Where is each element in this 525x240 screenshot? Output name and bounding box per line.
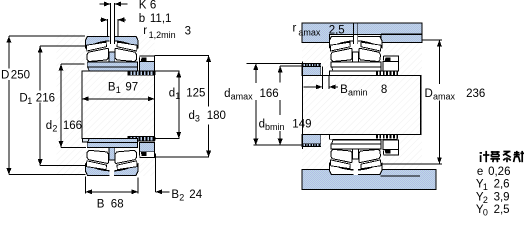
- locking clip top (right view): [385, 57, 391, 61]
- lube hole gap top (right view): [353, 36, 358, 45]
- locking clip top: [141, 57, 147, 61]
- guide ring bottom: [109, 148, 115, 160]
- svg-text:149: 149: [292, 118, 311, 130]
- svg-text:d: d: [224, 88, 230, 100]
- lock washer bottom (right view): [383, 140, 398, 149]
- svg-text:r: r: [293, 23, 297, 35]
- adapter sleeve top (right view): [332, 67, 382, 71]
- bore box: [82, 71, 155, 139]
- svg-text:0: 0: [483, 208, 488, 218]
- roller left row bottom: [87, 150, 108, 163]
- svg-text:2,5: 2,5: [494, 204, 510, 216]
- svg-text:1,2min: 1,2min: [149, 30, 176, 40]
- guide ring bottom (right view): [353, 149, 359, 159]
- lube hole lines: [109, 3, 111, 44]
- roller right row top: [115, 48, 136, 61]
- svg-text:B: B: [340, 84, 348, 96]
- inner ring top (right view): [331, 62, 381, 67]
- dimension d3 180: [155, 54, 210, 56]
- cage strip left bottom: [86, 161, 106, 170]
- svg-text:2: 2: [179, 193, 184, 203]
- dimension dbmin 149: [280, 65, 302, 67]
- svg-text:8: 8: [381, 84, 387, 96]
- svg-text:B: B: [108, 82, 116, 94]
- housing bottom recess shoulder line: [381, 175, 420, 177]
- svg-text:11,1: 11,1: [150, 13, 172, 25]
- svg-text:2,5: 2,5: [329, 25, 345, 37]
- housing top bore line right of bearing: [381, 33, 422, 35]
- svg-text:e: e: [477, 166, 483, 178]
- dimension d2 166: [61, 63, 84, 65]
- guide ring top: [109, 52, 115, 62]
- dimension Bamin 8: [321, 66, 323, 89]
- dimension b 11,1: [100, 19, 107, 21]
- sleeve thread top (right view): [376, 71, 399, 75]
- outer ring top (right view): [329, 36, 382, 48]
- lock nut bottom (right view): [383, 149, 398, 155]
- lube hole gap bottom (right view): [353, 166, 358, 175]
- roller right row bottom: [115, 150, 136, 163]
- dimension D1 216: [40, 45, 86, 47]
- sleeve thread bottom (right view): [376, 135, 399, 139]
- dimension B 68: [85, 177, 87, 194]
- svg-text:amax: amax: [231, 91, 254, 101]
- svg-text:250: 250: [11, 69, 30, 81]
- svg-text:2,6: 2,6: [494, 179, 510, 191]
- lock nut top (right view): [383, 56, 398, 62]
- roller right row bottom (right view): [359, 149, 380, 162]
- sleeve thread top: [128, 71, 155, 75]
- cage strip right bottom (right view): [361, 160, 381, 169]
- svg-text:68: 68: [111, 199, 124, 211]
- svg-text:3: 3: [195, 113, 200, 123]
- svg-text:125: 125: [186, 87, 205, 99]
- adapter sleeve bottom: [88, 139, 138, 143]
- cage strip right top: [117, 42, 137, 51]
- abutment collar bottom: [302, 135, 321, 144]
- lock washer top (right view): [383, 62, 398, 71]
- guide ring top (right view): [353, 52, 359, 62]
- inner ring bottom: [87, 142, 137, 147]
- adapter sleeve bottom (right view): [332, 140, 382, 144]
- svg-text:0,26: 0,26: [488, 166, 510, 178]
- abutment collar top: [302, 66, 321, 75]
- dimension K 6: [100, 3, 110, 5]
- inner ring top: [87, 62, 137, 67]
- cage strip left top (right view): [330, 42, 350, 51]
- lock washer top: [139, 62, 154, 71]
- svg-text:2: 2: [52, 124, 57, 134]
- adapter sleeve top: [88, 67, 138, 71]
- dimension damax 166: [246, 62, 302, 64]
- sleeve flange strip bottom: [82, 138, 137, 142]
- sleeve thread bottom: [128, 137, 155, 141]
- table header 计算系数 (drawn strokes): [480, 151, 524, 162]
- outer ring bottom: [86, 164, 139, 176]
- dimension B2 24: [155, 153, 157, 192]
- svg-text:1: 1: [27, 96, 32, 106]
- svg-text:3: 3: [185, 26, 191, 38]
- cage strip left top: [86, 42, 106, 51]
- outer ring top: [86, 36, 139, 48]
- svg-text:r: r: [143, 25, 147, 37]
- outer ring bottom (right view): [329, 163, 382, 175]
- svg-text:6: 6: [150, 0, 156, 12]
- housing bottom: [302, 169, 436, 189]
- svg-text:216: 216: [36, 92, 55, 104]
- locking clip bottom (right view): [385, 149, 391, 153]
- sleeve under-bearing top (right view): [329, 71, 397, 76]
- roller left row top (right view): [331, 48, 352, 61]
- svg-text:K: K: [139, 0, 147, 12]
- svg-text:amax: amax: [298, 28, 321, 38]
- locking clip bottom: [141, 152, 147, 156]
- svg-text:D: D: [425, 88, 433, 100]
- svg-text:1: 1: [175, 91, 180, 101]
- svg-text:97: 97: [125, 82, 138, 94]
- cage strip left bottom (right view): [330, 160, 350, 169]
- cage strip right bottom: [117, 161, 137, 170]
- svg-text:236: 236: [466, 88, 485, 100]
- dimension D 250: [9, 35, 85, 37]
- svg-text:d: d: [46, 120, 52, 132]
- svg-text:24: 24: [189, 189, 202, 201]
- svg-text:166: 166: [260, 88, 279, 100]
- svg-text:bmin: bmin: [265, 122, 285, 132]
- svg-text:B: B: [97, 199, 105, 211]
- dimension B1 97: [82, 98, 154, 100]
- roller left row top: [87, 48, 108, 61]
- lube groove edge lines: [106, 19, 108, 36]
- svg-text:D: D: [1, 69, 9, 81]
- dimension Damax 236: [422, 39, 442, 41]
- lube hole gap top: [109, 36, 114, 45]
- svg-text:180: 180: [207, 110, 226, 122]
- shaft box: [303, 75, 421, 134]
- svg-text:166: 166: [63, 120, 82, 132]
- roller left row bottom (right view): [331, 149, 352, 162]
- figure background hatch right: [302, 23, 422, 189]
- figure background hatch left: [57, 34, 155, 176]
- svg-text:2: 2: [483, 195, 488, 205]
- lock nut top: [139, 56, 154, 62]
- svg-text:3,9: 3,9: [494, 191, 510, 203]
- svg-text:amin: amin: [348, 88, 368, 98]
- dimension d1 125: [155, 70, 180, 72]
- svg-text:amax: amax: [433, 92, 456, 102]
- housing top: [302, 23, 422, 42]
- cage strip right top (right view): [361, 42, 381, 51]
- svg-text:1: 1: [116, 85, 121, 95]
- lube hole lines (right view): [353, 23, 355, 44]
- roller right row top (right view): [359, 48, 380, 61]
- lock nut bottom: [139, 152, 154, 158]
- svg-text:B: B: [171, 189, 179, 201]
- inner ring bottom (right view): [331, 144, 381, 149]
- sleeve under-bearing bottom (right view): [329, 135, 397, 140]
- lock washer bottom: [139, 142, 154, 151]
- svg-text:1: 1: [483, 182, 488, 192]
- svg-text:b: b: [139, 13, 145, 25]
- lube hole gap bottom: [109, 167, 114, 176]
